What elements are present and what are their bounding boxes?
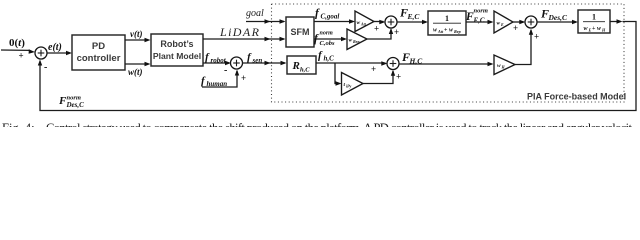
svg-text:-: - (224, 65, 227, 76)
svg-text:Fig. 4:: Fig. 4: (2, 121, 35, 127)
svg-text:+: + (241, 73, 246, 83)
svg-text:Att: Att (360, 22, 367, 27)
svg-text:+: + (592, 26, 596, 32)
svg-text:w: w (497, 21, 501, 27)
svg-text:norm: norm (474, 8, 488, 15)
svg-text:+: + (19, 51, 24, 61)
svg-text:E,C: E,C (407, 12, 421, 21)
svg-text:+: + (513, 23, 518, 33)
svg-text:E: E (500, 22, 504, 27)
svg-text:Des,C: Des,C (66, 101, 85, 109)
svg-text:+: + (374, 24, 379, 34)
svg-text:C,obs: C,obs (320, 40, 335, 47)
svg-text:1: 1 (592, 13, 596, 22)
svg-text:C,goal: C,goal (321, 13, 340, 21)
svg-text:R: R (292, 60, 300, 72)
svg-text:E,C: E,C (473, 17, 485, 25)
svg-text:Att: Att (437, 29, 444, 34)
svg-text:Rep: Rep (454, 29, 461, 34)
svg-text:norm: norm (320, 31, 334, 37)
svg-text:w: w (497, 63, 501, 69)
svg-text:Rep: Rep (353, 39, 359, 44)
svg-text:e(t): e(t) (48, 42, 62, 53)
svg-text:+: + (444, 28, 448, 34)
svg-text:1: 1 (445, 14, 449, 23)
svg-text:v(t): v(t) (130, 29, 143, 39)
svg-text:+: + (371, 64, 376, 74)
svg-text:h,C: h,C (300, 67, 310, 74)
svg-text:w: w (349, 38, 353, 44)
svg-text:SFM: SFM (291, 27, 310, 37)
svg-text:Des,C: Des,C (548, 13, 569, 22)
svg-text:h,C: h,C (324, 55, 335, 63)
svg-text:H: H (601, 28, 606, 33)
svg-text:+: + (534, 32, 539, 42)
svg-text:w(t): w(t) (128, 67, 143, 77)
svg-text:controller: controller (77, 53, 121, 64)
svg-text:robot: robot (211, 57, 227, 65)
svg-text:iPy: iPy (346, 84, 352, 89)
svg-text:+: + (394, 27, 399, 37)
svg-text:PIA Force-based Model: PIA Force-based Model (527, 92, 626, 102)
svg-text:LiDAR: LiDAR (219, 25, 260, 39)
svg-text:goal: goal (246, 8, 264, 19)
svg-text:E: E (588, 28, 592, 33)
svg-text:sen: sen (252, 57, 263, 65)
svg-text:PD: PD (92, 41, 105, 52)
svg-text:Robot’s: Robot’s (160, 39, 193, 49)
svg-text:Control strategy used to compe: Control strategy used to compensate the … (46, 121, 633, 127)
svg-text:w: w (357, 20, 361, 26)
svg-text:+: + (396, 72, 401, 82)
svg-text:0(t): 0(t) (9, 37, 25, 49)
svg-text:Plant Model: Plant Model (153, 51, 201, 61)
svg-text:-: - (44, 62, 47, 73)
